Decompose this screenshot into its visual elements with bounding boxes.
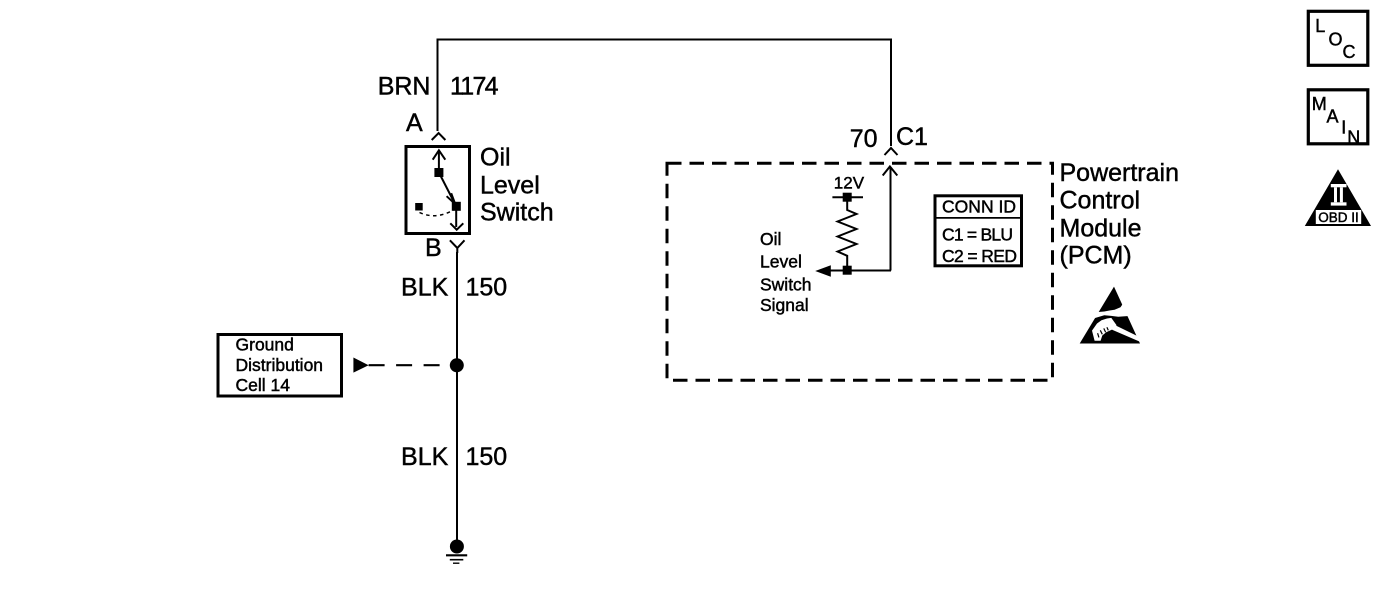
12V supply bar	[832, 196, 863, 198]
svg-text:C1: C1	[896, 123, 928, 151]
svg-text:Oil: Oil	[480, 143, 511, 171]
svg-text:150: 150	[466, 443, 508, 471]
svg-text:Powertrain: Powertrain	[1060, 159, 1180, 187]
switch contact arrow up (terminal A side)	[438, 152, 440, 173]
junction node dot	[450, 358, 464, 372]
svg-text:Oil: Oil	[760, 229, 781, 249]
svg-text:Signal: Signal	[760, 295, 809, 315]
switch dashed travel arc	[420, 210, 454, 216]
ground node dot	[450, 540, 464, 554]
wire vertical drop to PCM pin 70	[890, 39, 892, 147]
LOC legend box	[1308, 11, 1368, 65]
svg-text:O: O	[1329, 29, 1343, 49]
ground distribution reference box	[218, 335, 342, 397]
svg-text:B: B	[425, 234, 442, 262]
svg-text:BLK: BLK	[401, 443, 449, 471]
svg-text:Cell 14: Cell 14	[236, 375, 291, 395]
switch left stationary contact dot	[415, 203, 423, 211]
svg-text:12V: 12V	[834, 173, 865, 192]
MAIN legend box	[1308, 90, 1368, 144]
svg-text:Switch: Switch	[480, 198, 554, 226]
connector C1 chevron	[885, 148, 898, 155]
svg-text:L: L	[1315, 16, 1325, 36]
CONN ID header divider	[937, 217, 1021, 219]
resistor bottom node dot	[843, 266, 852, 275]
ground symbol	[446, 554, 467, 556]
svg-text:Level: Level	[760, 252, 802, 272]
wire top horizontal BRN 1174	[438, 39, 892, 41]
svg-text:I: I	[1341, 117, 1346, 137]
pull-up resistor	[838, 202, 857, 267]
svg-text:OBD II: OBD II	[1318, 210, 1359, 225]
svg-text:BLK: BLK	[401, 274, 449, 302]
svg-text:1174: 1174	[450, 73, 499, 101]
wire BLK 150 lower segment	[456, 365, 458, 546]
svg-text:Ground: Ground	[236, 335, 294, 355]
PCM dashed module box	[667, 163, 1053, 380]
resistor top node dot	[843, 193, 852, 202]
dashed reference line to junction	[369, 364, 450, 366]
svg-text:M: M	[1312, 94, 1327, 114]
svg-text:C2 = RED: C2 = RED	[942, 246, 1017, 266]
switch movable contact diagonal with arrowhead	[439, 173, 456, 206]
svg-text:A: A	[1327, 106, 1339, 126]
connector B Y-symbol	[450, 240, 465, 253]
PCM internal input arrow (up)	[883, 167, 898, 176]
wire BLK 150 upper segment	[456, 252, 458, 365]
svg-text:A: A	[406, 109, 423, 137]
wire from pin 70 down inside PCM	[890, 168, 892, 271]
switch contact arrow down (terminal B side)	[455, 207, 457, 228]
OBD II legend triangle	[1305, 169, 1371, 226]
svg-text:CONN ID: CONN ID	[942, 197, 1016, 217]
svg-text:Control: Control	[1060, 187, 1141, 215]
svg-text:Switch: Switch	[760, 274, 812, 294]
CONN ID table box	[935, 196, 1022, 266]
svg-text:Level: Level	[480, 172, 540, 200]
svg-text:BRN: BRN	[378, 73, 431, 101]
reference pointer triangle	[353, 358, 368, 373]
svg-text:Module: Module	[1060, 214, 1142, 242]
svg-text:Distribution: Distribution	[236, 355, 324, 375]
svg-text:150: 150	[466, 274, 508, 302]
switch node dot (lower right)	[452, 202, 461, 211]
connector A chevron	[432, 133, 446, 140]
svg-text:C1 = BLU: C1 = BLU	[942, 224, 1013, 244]
svg-text:N: N	[1347, 127, 1360, 147]
ESD sensitivity symbol	[1080, 287, 1141, 344]
svg-text:(PCM): (PCM)	[1060, 242, 1132, 270]
oil level switch box	[406, 147, 470, 234]
svg-text:70: 70	[850, 125, 878, 153]
wire horizontal to resistor bottom	[829, 270, 891, 272]
switch node dot (top)	[434, 168, 443, 177]
signal arrowhead (left)	[815, 265, 831, 277]
wire vertical drop to switch pin A	[437, 39, 439, 132]
svg-text:C: C	[1343, 42, 1356, 62]
